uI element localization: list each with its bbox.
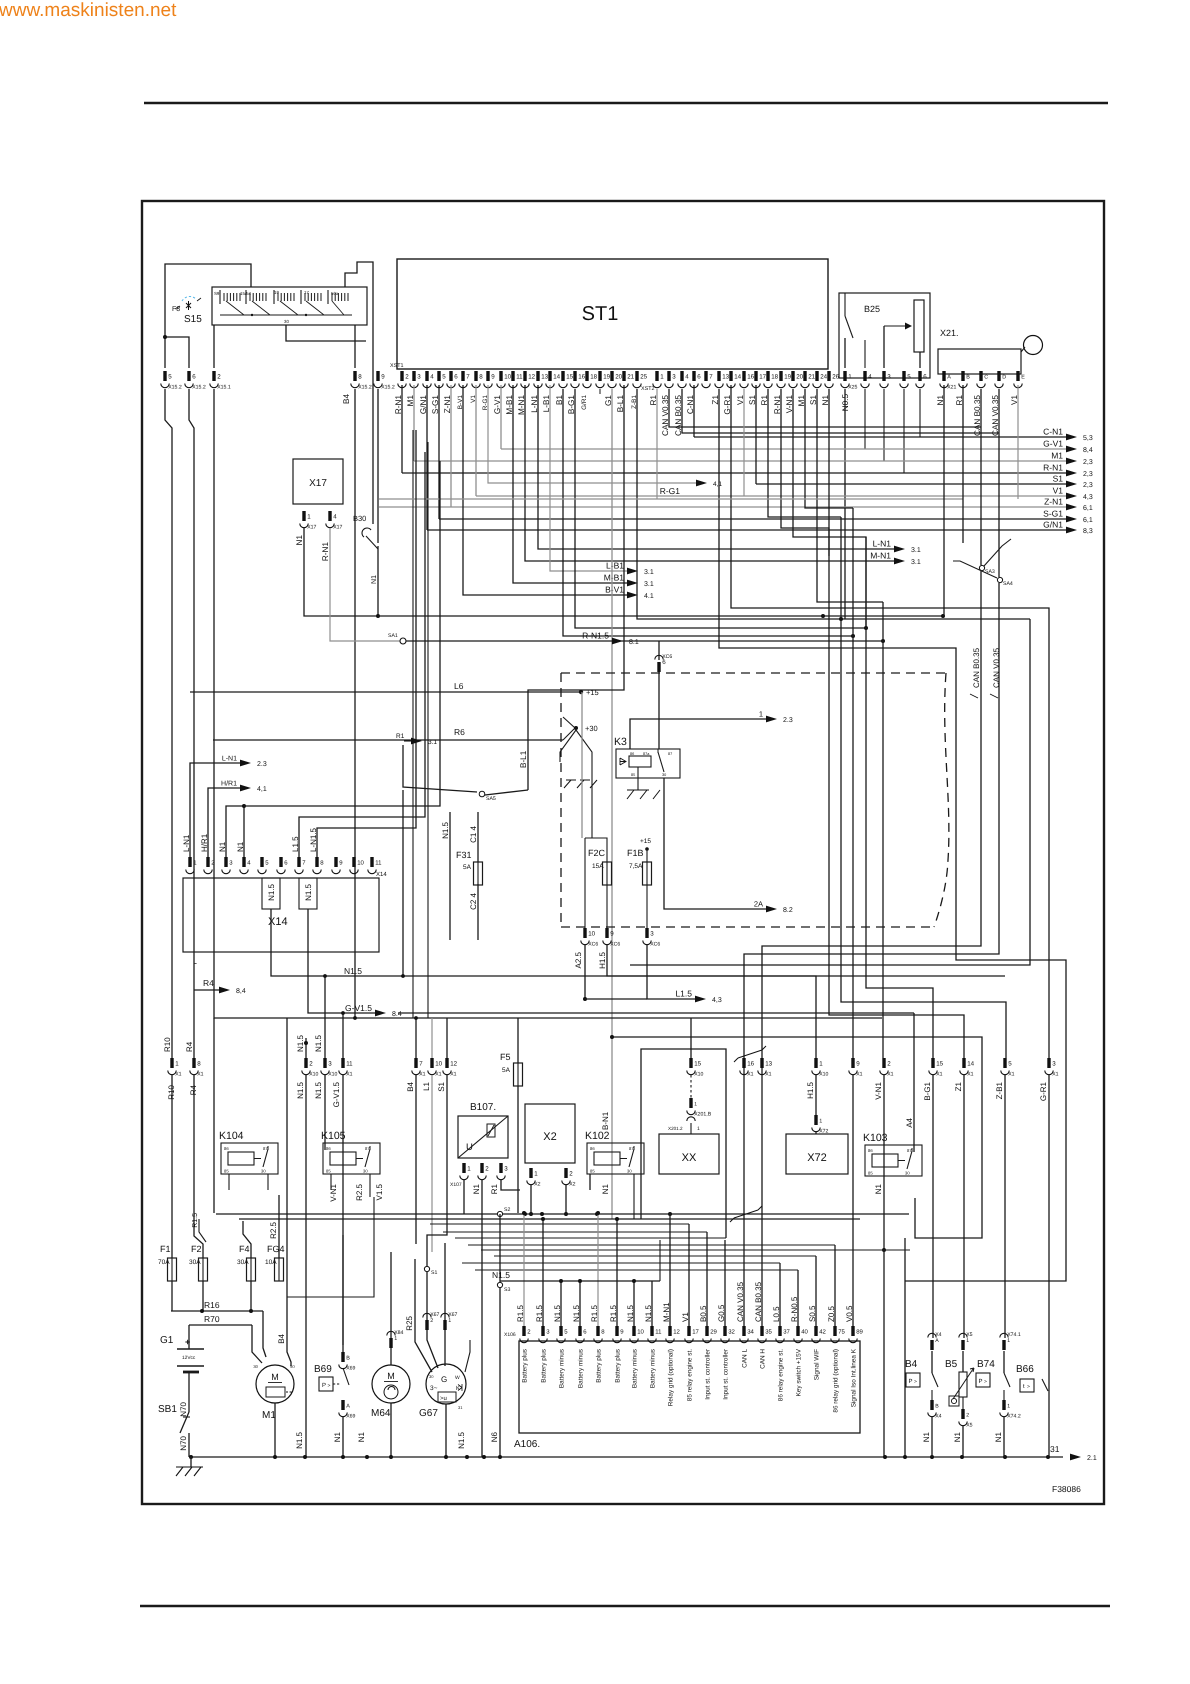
svg-text:B-G1: B-G1	[923, 1081, 932, 1100]
svg-text:N1: N1	[472, 1183, 481, 1194]
wire N1.5 horizontal	[271, 909, 1005, 978]
junction SA5	[479, 791, 496, 802]
svg-text:X1: X1	[419, 1072, 425, 1078]
A106 pin 37 L0.5	[772, 1306, 791, 1401]
svg-text:86 relay engine st.: 86 relay engine st.	[778, 1349, 785, 1401]
svg-text:F1B: F1B	[627, 848, 644, 858]
svg-text:30: 30	[363, 1169, 368, 1174]
svg-text:N1: N1	[236, 841, 245, 852]
net C-N1 to sheet 5,3	[694, 385, 1093, 442]
svg-text:L1.5: L1.5	[291, 836, 300, 852]
svg-text:X1: X1	[435, 1072, 441, 1078]
svg-text:6: 6	[454, 374, 458, 381]
wire group ST1 staircase left	[413, 430, 501, 1018]
svg-text:3: 3	[328, 1061, 332, 1068]
switch B30	[353, 514, 378, 549]
svg-text:F4: F4	[239, 1244, 250, 1254]
svg-text:2.3: 2.3	[783, 717, 793, 724]
svg-text:B-V1: B-V1	[605, 585, 624, 595]
svg-text:30: 30	[627, 1169, 632, 1174]
fuse F1B 7.5A	[627, 838, 652, 886]
wire K102 down	[633, 1174, 635, 1219]
net Z-N1 to sheet 6,1	[379, 385, 1093, 512]
wire X21-E V1 down	[1017, 385, 1019, 499]
svg-text:N70: N70	[179, 1401, 188, 1416]
svg-text:8: 8	[197, 1061, 201, 1068]
ground bus 31	[189, 1444, 1097, 1462]
B69 pin B	[339, 1352, 356, 1372]
svg-text:X67: X67	[430, 1312, 439, 1318]
wire R1 to X21B	[656, 389, 658, 499]
svg-text:R-N1.5: R-N1.5	[582, 631, 609, 641]
svg-text:R2.5: R2.5	[355, 1183, 364, 1200]
svg-text:X1: X1	[856, 1072, 862, 1078]
svg-text:L-B1: L-B1	[606, 561, 624, 571]
wire fork to F2C	[591, 762, 593, 838]
svg-text:V1.5: V1.5	[375, 1183, 384, 1200]
svg-text:4,1: 4,1	[713, 481, 722, 488]
wire B69 bottom	[342, 1417, 344, 1457]
svg-text:11: 11	[346, 1061, 353, 1068]
svg-text:35: 35	[765, 1329, 772, 1336]
X14 body	[183, 878, 379, 952]
svg-text:B4: B4	[905, 1359, 918, 1370]
ST1 pin 24 S1	[809, 371, 828, 405]
svg-text:M1: M1	[1051, 451, 1063, 461]
svg-text:17: 17	[692, 1329, 699, 1336]
net R-N1.5 to sheet 8.1	[582, 631, 639, 646]
net G-V1.5 to sheet 8.4	[308, 909, 914, 1018]
svg-text:86: 86	[590, 1146, 595, 1151]
module B107	[458, 1102, 508, 1158]
pin 1 X201.B	[687, 1098, 712, 1118]
svg-text:X201.2: X201.2	[668, 1126, 683, 1131]
svg-text:4: 4	[333, 514, 337, 521]
svg-text:B5: B5	[945, 1359, 958, 1370]
ST1 pin 12 M-N1	[517, 371, 536, 415]
wire N1 bus to SA1	[378, 616, 400, 641]
wire K103 86 through	[883, 1075, 885, 1250]
svg-text:Battery minus: Battery minus	[578, 1349, 585, 1388]
fuse F2C 15A	[588, 848, 612, 886]
svg-text:86: 86	[224, 1146, 229, 1151]
svg-text:X4: X4	[935, 1414, 941, 1420]
wire X21-A N1 down	[943, 385, 945, 616]
svg-text:10: 10	[357, 860, 364, 867]
wire F2C down	[606, 885, 608, 928]
svg-text:X1: X1	[197, 1072, 203, 1078]
wire SA1 line	[406, 640, 659, 642]
svg-text:CAN V0.35: CAN V0.35	[736, 1281, 745, 1322]
pin 8 X1 left	[190, 1058, 204, 1078]
svg-text:N1.5: N1.5	[304, 883, 313, 900]
wire A106 battery plus feeds	[522, 1211, 619, 1326]
junction S3	[492, 1214, 510, 1457]
svg-text:V1: V1	[1053, 486, 1064, 496]
svg-text:B: B	[346, 1356, 350, 1362]
wire K103 30 down	[882, 1176, 905, 1238]
temperature sensor B5	[945, 1351, 974, 1409]
svg-text:X17: X17	[333, 525, 342, 531]
B25 pin 6	[916, 371, 927, 388]
svg-text:12: 12	[673, 1329, 680, 1336]
svg-text:Key switch +15V: Key switch +15V	[796, 1348, 803, 1396]
X72 pin 1	[812, 1115, 829, 1135]
wire B4 down	[415, 1018, 417, 1058]
splice N1.5 pin8	[299, 878, 317, 909]
B69 pin A	[339, 1400, 356, 1420]
net R-N1 to sheet 2,3	[402, 385, 1093, 478]
svg-text:B-L1: B-L1	[519, 750, 528, 768]
svg-text:12Vcc: 12Vcc	[182, 1355, 196, 1361]
svg-text:X15.2: X15.2	[192, 385, 206, 391]
connector X17	[293, 459, 343, 504]
svg-text:F2: F2	[191, 1244, 202, 1254]
svg-text:A: A	[346, 1404, 350, 1410]
svg-text:N1: N1	[357, 1431, 366, 1442]
svg-text:Z-B1: Z-B1	[995, 1081, 1004, 1099]
G67 pin 2 X67	[423, 1312, 440, 1330]
svg-text:P: P	[322, 1382, 326, 1389]
pin 1 X10	[812, 1058, 829, 1078]
svg-text:2: 2	[430, 1318, 433, 1324]
svg-text:X74.2: X74.2	[1007, 1414, 1021, 1420]
svg-text:X201,B: X201,B	[694, 1112, 712, 1118]
svg-text:31: 31	[1050, 1444, 1060, 1454]
svg-text:CAN V0.35: CAN V0.35	[992, 647, 1001, 688]
pin 2 X1	[880, 1058, 894, 1078]
wire K105 drops	[330, 1174, 332, 1190]
svg-text:Input st. controller: Input st. controller	[705, 1348, 712, 1400]
svg-text:X1: X1	[1052, 1072, 1058, 1078]
B25 pin 5	[900, 371, 911, 388]
svg-text:S9: S9	[214, 291, 220, 296]
svg-text:SA1: SA1	[388, 633, 398, 639]
svg-text:X25: X25	[848, 385, 857, 391]
svg-text:86: 86	[630, 752, 634, 756]
relay K3	[614, 736, 680, 778]
svg-text:8,4: 8,4	[1083, 447, 1093, 454]
svg-text:7: 7	[709, 374, 713, 381]
svg-text:11: 11	[375, 860, 382, 867]
svg-text:S3: S3	[504, 1287, 510, 1293]
svg-text:3: 3	[1052, 1061, 1056, 1068]
ST1 pin 15 B1	[555, 371, 574, 405]
svg-text:21: 21	[808, 374, 815, 381]
A106 pin 3 R1.5	[535, 1305, 550, 1383]
svg-text:8,3: 8,3	[1083, 528, 1093, 535]
wire SA5 to B-L1	[485, 790, 528, 795]
pin 6 XC6	[655, 654, 673, 672]
svg-text:2: 2	[405, 374, 409, 381]
svg-text:X1: X1	[936, 1072, 942, 1078]
svg-text:S-G1: S-G1	[1043, 509, 1063, 519]
svg-text:75: 75	[838, 1329, 845, 1336]
svg-text:F31: F31	[456, 850, 472, 860]
svg-text:1: 1	[1007, 1404, 1010, 1410]
relay K104	[219, 1130, 278, 1174]
svg-text:N70: N70	[179, 1435, 188, 1450]
svg-text:15: 15	[694, 1061, 701, 1068]
fuse F31 5A	[456, 812, 483, 940]
svg-text:9: 9	[491, 374, 495, 381]
wire B5 legs	[963, 1075, 965, 1338]
svg-text:L6: L6	[454, 681, 464, 691]
svg-text:X72: X72	[819, 1129, 828, 1135]
svg-text:G-V1.5: G-V1.5	[345, 1003, 372, 1013]
A106 pin 11 N1.5	[644, 1305, 662, 1389]
svg-text:6,1: 6,1	[1083, 517, 1093, 524]
ST1 pin 21 B-L1	[616, 371, 635, 412]
X14 pin 2	[204, 857, 215, 874]
svg-text:N1: N1	[922, 1431, 931, 1442]
wire 14X1 feed via N1	[829, 528, 964, 1058]
ST1 pin 2 R-N1	[394, 371, 409, 414]
svg-text:S1: S1	[437, 1081, 446, 1091]
wire R4 left	[189, 389, 194, 1058]
ST1 pin 21 M1	[797, 371, 816, 406]
svg-text:ST1: ST1	[582, 303, 619, 325]
svg-text:2: 2	[217, 374, 221, 381]
svg-text:12: 12	[528, 374, 535, 381]
wire S15 to B30 feeder	[345, 262, 373, 524]
net R-G1 to sheet 4.1	[488, 385, 722, 496]
svg-text:2.1: 2.1	[1087, 1455, 1097, 1462]
svg-text:X67: X67	[448, 1312, 457, 1318]
svg-text:8.2: 8.2	[783, 907, 793, 914]
svg-text:N1: N1	[874, 1183, 883, 1194]
wire 15X1 vertical	[866, 537, 933, 1058]
B74 pin 1 X74.1	[1000, 1332, 1021, 1350]
svg-text:www.maskinisten.net: www.maskinisten.net	[0, 0, 177, 21]
sensor B25	[839, 293, 930, 378]
X21 pin D	[995, 371, 1006, 388]
svg-text:2: 2	[966, 1413, 969, 1419]
wire S1 step	[817, 389, 883, 602]
wire 1037 rail	[612, 1037, 982, 1238]
svg-text:N1: N1	[994, 1431, 1003, 1442]
ST1 pin 7	[702, 371, 713, 388]
net 2A to sheet 8.2	[664, 778, 793, 914]
wire CAN V0.35 link	[669, 389, 981, 427]
svg-text:CAN L: CAN L	[742, 1349, 749, 1368]
svg-text:87a: 87a	[643, 752, 650, 756]
svg-text:85: 85	[631, 773, 635, 777]
svg-text:SA3: SA3	[985, 569, 995, 575]
ST1 pin 11 M-B1	[505, 371, 523, 415]
wire 15X10 to X201	[690, 1075, 692, 1098]
wire S15 pin2	[213, 325, 215, 368]
svg-text:B4: B4	[277, 1333, 286, 1343]
wire N1 bus 616	[378, 615, 944, 617]
ST1 pin 16 V1	[736, 371, 755, 405]
junction S2 line	[216, 1207, 909, 1217]
svg-text:3.1: 3.1	[644, 569, 654, 576]
connector X21	[938, 328, 1043, 374]
svg-text:32: 32	[728, 1329, 735, 1336]
svg-text:B107.: B107.	[470, 1102, 496, 1113]
svg-text:4: 4	[868, 374, 872, 381]
svg-text:X15.2: X15.2	[381, 385, 395, 391]
svg-text:20: 20	[796, 374, 803, 381]
svg-text:R-N1: R-N1	[321, 542, 330, 562]
svg-text:N1: N1	[953, 1431, 962, 1442]
svg-text:19: 19	[603, 374, 610, 381]
svg-text:X5: X5	[966, 1423, 972, 1429]
svg-text:X17: X17	[307, 525, 316, 531]
svg-text:24: 24	[820, 374, 827, 381]
A106 pin 35 CAN B0.35	[754, 1281, 773, 1368]
pin 13 X1	[758, 1058, 773, 1078]
svg-text:R6: R6	[454, 727, 465, 737]
wire X17 pin4 down	[330, 528, 400, 641]
svg-text:13: 13	[722, 374, 729, 381]
wire X21-C CAN B0.35 down	[980, 389, 982, 565]
wire G-R1 to bus	[1048, 1075, 1050, 1457]
top rule	[144, 102, 1108, 104]
svg-text:3: 3	[650, 931, 654, 938]
svg-text:X4: X4	[935, 1332, 941, 1338]
wire S15 pin6 branch	[165, 337, 189, 368]
wire B4 legs	[932, 1075, 934, 1338]
svg-text:XC6: XC6	[610, 942, 620, 948]
pin 15 X1	[929, 1058, 944, 1078]
svg-text:X1: X1	[887, 1072, 893, 1078]
svg-text:X1: X1	[747, 1072, 753, 1078]
ST1 pin 25 Z-B1	[631, 371, 648, 409]
wire B1 run	[563, 389, 853, 636]
svg-text:31: 31	[458, 1405, 463, 1410]
X21 pin C	[977, 371, 988, 388]
switch SB1	[158, 1404, 190, 1457]
svg-text:1: 1	[394, 1336, 397, 1342]
svg-text:X15.2: X15.2	[358, 385, 372, 391]
svg-text:Battery plus: Battery plus	[615, 1349, 622, 1383]
wire F1B top	[646, 849, 648, 862]
svg-text:N1.5: N1.5	[344, 966, 362, 976]
wire X17 pin1 to bus	[304, 528, 378, 616]
switch SA3	[979, 539, 1011, 575]
wire B25 pin stubs	[865, 389, 920, 473]
svg-text:XC6: XC6	[588, 942, 598, 948]
svg-text:E: E	[1021, 375, 1025, 381]
svg-text:R1: R1	[396, 733, 405, 740]
svg-text:6: 6	[192, 374, 196, 381]
bottom rule	[140, 1605, 1110, 1608]
svg-text:Relay grid (optional): Relay grid (optional)	[668, 1349, 675, 1406]
svg-text:89: 89	[856, 1329, 863, 1336]
wire fork +30	[560, 730, 592, 762]
wire B-G1 run	[575, 389, 866, 628]
svg-text:X69: X69	[346, 1414, 355, 1420]
A106 pin 8 R1.5	[590, 1305, 605, 1383]
wire F2C loop	[585, 838, 607, 862]
svg-text:8: 8	[358, 374, 362, 381]
net S-G1 to sheet 6,1	[439, 385, 1093, 524]
svg-text:G67: G67	[419, 1408, 438, 1419]
ignition switch S15	[212, 287, 367, 325]
net 1 to sheet 2.3	[630, 710, 793, 750]
wire loop around relay bay	[214, 389, 882, 1018]
svg-text:G1: G1	[160, 1335, 174, 1346]
svg-text:H1.5: H1.5	[598, 951, 607, 968]
svg-text:8.1: 8.1	[629, 639, 639, 646]
svg-text:5A: 5A	[502, 1067, 511, 1074]
svg-text:A4: A4	[905, 1117, 914, 1127]
wire B30 to junction	[377, 546, 379, 616]
wire R1.5 diag	[192, 1213, 206, 1242]
connector pin 2 X15.1	[210, 371, 231, 391]
net L-N1 to sheet 3.1	[538, 385, 921, 554]
wire mid horizontal 2	[239, 1218, 860, 1220]
pressure sensor B74	[976, 1351, 1010, 1387]
ST1 pin 18 G/R1	[581, 371, 598, 410]
wire R1 down to N1.5 line	[402, 790, 404, 976]
svg-text:85 relay engine st.: 85 relay engine st.	[687, 1349, 694, 1401]
ST1 pin 9 R-G1	[482, 371, 495, 410]
A106 pin 17 V1	[681, 1312, 700, 1402]
B107 pin 1	[460, 1163, 471, 1180]
X14 pin 10	[350, 857, 365, 874]
svg-text:H/R1: H/R1	[221, 780, 237, 788]
A106 pin 5 N1.5	[553, 1305, 568, 1389]
svg-text:W: W	[455, 1375, 460, 1381]
svg-text:37: 37	[783, 1329, 790, 1336]
svg-text:N1.5: N1.5	[296, 1035, 305, 1052]
X14 pin 5	[258, 857, 269, 874]
X17 pin 4	[326, 511, 343, 531]
svg-text:1: 1	[966, 1338, 969, 1344]
X14 pin 7	[295, 857, 306, 874]
wire M64 feed	[390, 1252, 392, 1338]
svg-text:M: M	[387, 1371, 395, 1381]
wire K104 drops	[228, 1174, 230, 1190]
svg-text:F1: F1	[160, 1244, 171, 1254]
svg-text:R2.5: R2.5	[269, 1221, 278, 1238]
svg-text:R16: R16	[204, 1300, 220, 1310]
wire K103 blade drop	[914, 1195, 916, 1238]
wire 9X1 vertical	[852, 508, 854, 1058]
svg-text:5: 5	[1008, 1061, 1012, 1068]
svg-text:M1: M1	[262, 1410, 276, 1421]
ST1 pin 14 L-B1	[542, 371, 561, 412]
svg-text:SA4: SA4	[1003, 581, 1013, 587]
wire R10 left	[165, 389, 172, 1058]
svg-text:6: 6	[923, 374, 927, 381]
svg-text:18: 18	[771, 374, 778, 381]
svg-text:N1.5: N1.5	[441, 821, 450, 838]
svg-text:Signal Iso Int.linea K: Signal Iso Int.linea K	[851, 1348, 858, 1407]
wire R25 to G67	[415, 1259, 432, 1372]
svg-text:SA5: SA5	[486, 796, 496, 802]
G67 pin 1 X67	[441, 1312, 458, 1330]
svg-text:X10: X10	[694, 1072, 703, 1078]
svg-text:X1: X1	[346, 1072, 352, 1078]
pin 5 X1	[1001, 1058, 1015, 1078]
svg-text:2: 2	[485, 1166, 489, 1173]
svg-text:2,3: 2,3	[1083, 471, 1093, 478]
ground K3 coil	[627, 767, 660, 799]
wire A4 down	[913, 1013, 915, 1152]
ST1 pin 10 G-V1	[493, 371, 512, 414]
wire S15 terminal 30 run	[286, 325, 366, 341]
A106 pin 32 G0.5	[717, 1304, 736, 1400]
svg-text:A2.5: A2.5	[574, 951, 583, 968]
svg-text:42: 42	[819, 1329, 826, 1336]
svg-text:4.1: 4.1	[644, 593, 654, 600]
svg-text:B: B	[935, 1404, 939, 1410]
X14 pin 11	[368, 857, 382, 874]
